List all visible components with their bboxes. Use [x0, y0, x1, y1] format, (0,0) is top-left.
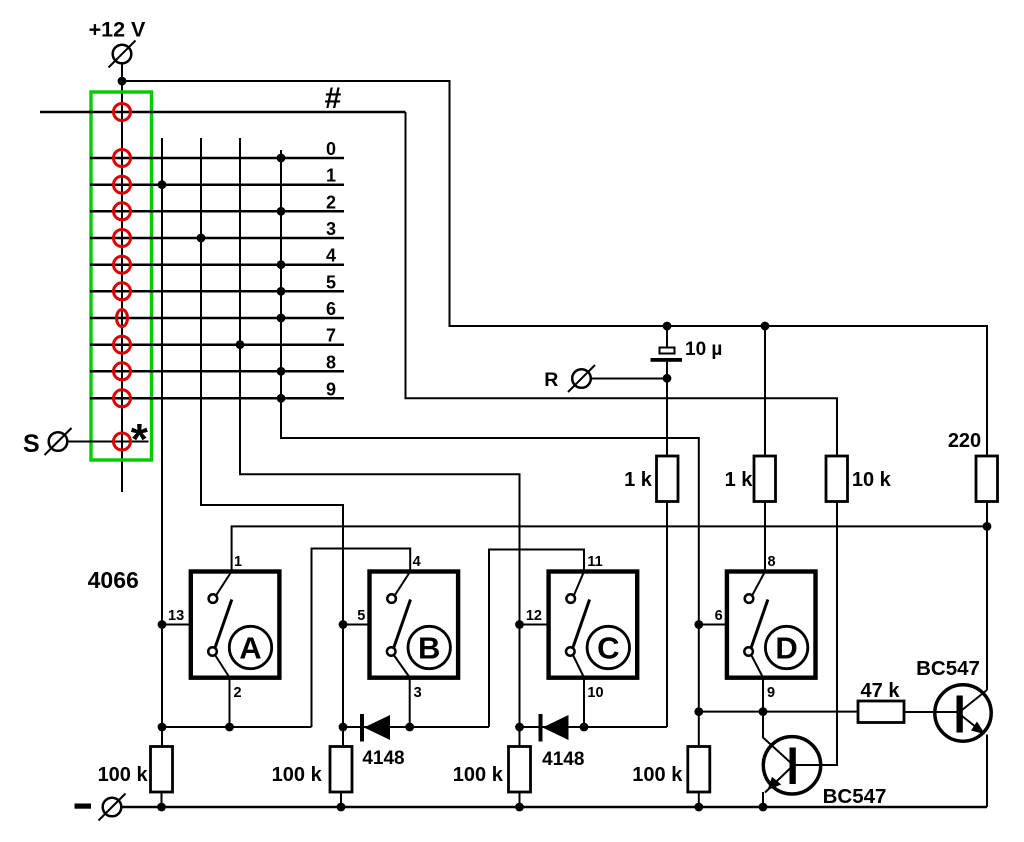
- wire signal bus to switch A pin 1: [232, 526, 987, 571]
- wire switch B pin 3 lead: [409, 678, 411, 727]
- resistor 47 k: [858, 701, 904, 723]
- switch B input diagonal: [395, 572, 410, 596]
- wire column from row 3 (switch B control): [201, 138, 343, 746]
- switch C output diagonal: [573, 656, 584, 678]
- svg-text:9: 9: [326, 379, 336, 399]
- switch D lever: [751, 600, 768, 648]
- junction row5-colD: [277, 287, 286, 296]
- svg-text:1: 1: [234, 554, 242, 570]
- wire keypad row 0: [90, 157, 344, 160]
- switch B lever: [394, 600, 411, 648]
- junction row0-colD: [277, 154, 286, 163]
- wire R node to 1k resistor: [666, 378, 668, 456]
- wire column for switch D control (multi-row net): [281, 150, 699, 746]
- switch B top contact: [387, 594, 396, 603]
- wire 100k second bottom lead: [340, 792, 342, 807]
- svg-text:BC547: BC547: [916, 657, 980, 680]
- svg-text:+12 V: +12 V: [89, 18, 146, 42]
- svg-text:3: 3: [414, 685, 422, 701]
- switch B control pin wire: [343, 624, 369, 626]
- keypad key contact 0: [114, 104, 131, 121]
- wire lower BC547 emitter to ground: [762, 792, 764, 807]
- svg-text:10 k: 10 k: [852, 469, 892, 491]
- wire capacitor top lead: [666, 326, 668, 348]
- junction 220 output node: [983, 522, 992, 531]
- keypad key contact 4: [114, 230, 131, 247]
- wire 47k to upper BC547 base: [904, 711, 957, 713]
- wire switch D output row to 47k: [699, 711, 858, 713]
- switch D box (4066): [727, 572, 816, 678]
- transistor Q1 BC547 (upper): [935, 685, 991, 741]
- svg-text:6: 6: [326, 299, 336, 319]
- svg-text:4: 4: [413, 554, 421, 570]
- junction 100k third ground: [515, 803, 524, 812]
- keypad key contact 7: [117, 310, 128, 327]
- junction +12 rail to second 1k: [761, 322, 770, 331]
- svg-text:100 k: 100 k: [98, 764, 149, 786]
- switch C bottom contact: [566, 647, 575, 656]
- junction C pin10 node: [580, 723, 589, 732]
- switch C letter circle: [587, 626, 629, 668]
- junction row7-colC: [236, 340, 245, 349]
- svg-text:8: 8: [767, 554, 775, 570]
- wire S row: [67, 441, 149, 443]
- svg-text:1 k: 1 k: [725, 469, 754, 491]
- switch B box (4066): [370, 572, 459, 678]
- keypad key contact 11: [114, 433, 131, 450]
- switch B letter circle: [408, 626, 450, 668]
- svg-text:1: 1: [326, 166, 336, 186]
- switch D output diagonal: [752, 656, 764, 678]
- svg-text:3: 3: [326, 219, 336, 239]
- keypad key contact 10: [114, 390, 131, 407]
- junction B pin3 node: [405, 723, 414, 732]
- transistor Q2 BC547 (lower): [763, 737, 821, 794]
- junction row9-colD: [277, 394, 286, 403]
- resistor 1 k (second): [754, 456, 776, 502]
- wire lower BC547 collector lead: [762, 712, 764, 738]
- wire ground rail: [122, 806, 988, 809]
- resistor 100 k (third): [509, 747, 531, 793]
- switch A input diagonal: [216, 572, 231, 596]
- svg-text:4148: 4148: [542, 749, 584, 770]
- wire second 1k to switch D pin 8: [764, 502, 766, 572]
- switch D bottom contact: [744, 647, 753, 656]
- resistor 100 k (first): [151, 747, 173, 793]
- keypad key contact 9: [114, 363, 131, 380]
- junction row4-colD: [277, 260, 286, 269]
- svg-text:9: 9: [767, 685, 775, 701]
- wire keypad row 9: [90, 397, 344, 400]
- svg-text:0: 0: [326, 139, 336, 159]
- switch D letter circle: [765, 626, 807, 668]
- wire keypad row 6: [90, 317, 344, 320]
- switch A top contact: [209, 594, 218, 603]
- wire switch A output row: [162, 726, 312, 728]
- diode D2 4148: [541, 714, 569, 742]
- svg-text:4066: 4066: [88, 567, 139, 593]
- wire upper BC547 emitter to ground: [986, 735, 988, 808]
- junction row6-colD: [277, 314, 286, 323]
- resistor 1 k (first): [657, 456, 679, 502]
- wire 10k bottom lead to transistor base: [795, 502, 837, 766]
- svg-text:S: S: [23, 430, 40, 458]
- keypad key contact 8: [114, 336, 131, 353]
- wire keypad row 4: [90, 263, 344, 266]
- svg-text:2: 2: [233, 685, 241, 701]
- svg-text:BC547: BC547: [823, 785, 887, 808]
- junction C control node: [515, 723, 524, 732]
- junction row3-colB: [197, 234, 206, 243]
- wire collector lead upper BC547: [986, 526, 988, 690]
- switch C lever: [573, 600, 590, 648]
- switch B bottom contact: [387, 647, 396, 656]
- wire # net route to 10 k: [406, 112, 838, 456]
- wire keypad row 3: [90, 237, 344, 240]
- capacitor C1 10u: [651, 348, 683, 379]
- wire switch B output row (through diode): [343, 726, 489, 728]
- junction 100k fourth ground: [694, 803, 703, 812]
- svg-text:*: *: [131, 415, 149, 464]
- label minus: [75, 804, 92, 809]
- keypad key contact 6: [114, 283, 131, 300]
- wire switch C pin 10 lead: [583, 678, 585, 727]
- switch A lever: [215, 600, 232, 648]
- junction A control-output: [158, 723, 167, 732]
- svg-text:47 k: 47 k: [861, 680, 901, 702]
- svg-text:#: #: [325, 82, 342, 115]
- junction switch D control: [694, 620, 703, 629]
- wire keypad row 2: [90, 210, 344, 213]
- svg-text:10: 10: [587, 685, 603, 701]
- svg-text:11: 11: [587, 554, 602, 570]
- junction +12V branch: [118, 77, 127, 86]
- keypad outline (green): [91, 92, 152, 460]
- svg-text:12: 12: [526, 608, 542, 624]
- junction switch B control: [339, 620, 348, 629]
- resistor 100 k (fourth): [688, 747, 710, 793]
- resistor 220: [976, 456, 998, 502]
- junction switch A control: [158, 620, 167, 629]
- wire 100k fourth bottom lead: [698, 792, 700, 807]
- keypad key contact 5: [114, 256, 131, 273]
- junction row1-colA: [158, 180, 167, 189]
- svg-text:13: 13: [168, 608, 184, 624]
- svg-text:1 k: 1 k: [624, 469, 653, 491]
- switch C input diagonal: [574, 572, 584, 596]
- keypad key contact 2: [114, 176, 131, 193]
- wire second 1k top lead: [764, 326, 766, 456]
- switch B output diagonal: [394, 656, 410, 678]
- svg-text:D: D: [775, 631, 797, 666]
- switch A bottom contact: [208, 647, 217, 656]
- switch A control pin wire: [162, 624, 191, 626]
- svg-text:8: 8: [326, 352, 336, 372]
- keypad key contact 1: [114, 150, 131, 167]
- junction D pin9 node: [759, 707, 768, 716]
- svg-text:R: R: [544, 369, 558, 391]
- wire keypad row 1: [90, 183, 344, 186]
- keypad key contact 3: [114, 203, 131, 220]
- junction 100k second ground: [337, 803, 346, 812]
- wire +12V rail to 220 resistor: [122, 81, 987, 456]
- wire R terminal to cap node: [591, 378, 667, 380]
- switch D top contact: [745, 594, 754, 603]
- junction 100k first ground: [157, 803, 166, 812]
- junction A pin2 node: [225, 723, 234, 732]
- connector ground terminal: [99, 794, 126, 821]
- svg-text:B: B: [418, 631, 440, 666]
- wire keypad row 7: [90, 343, 344, 346]
- svg-text:100 k: 100 k: [453, 764, 504, 786]
- resistor 10 k: [826, 456, 848, 502]
- wire keypad row 5: [90, 290, 344, 293]
- svg-text:A: A: [239, 631, 261, 666]
- wire keypad common column (+12V vertical): [121, 64, 123, 493]
- wire 100k third bottom lead: [519, 792, 521, 807]
- switch C control pin wire: [520, 624, 549, 626]
- wire switch D pin 9 lead: [762, 678, 764, 712]
- wire column from row 7 (switch C control): [240, 138, 520, 746]
- wire # row: [40, 111, 406, 114]
- resistor 100 k (second): [330, 747, 352, 793]
- diode D1 4148: [362, 714, 390, 742]
- svg-text:6: 6: [715, 608, 723, 624]
- wire switch C output row (through diode): [520, 726, 668, 728]
- wire 1k first bottom lead: [666, 502, 668, 728]
- connector R terminal: [568, 365, 595, 392]
- wire 100k first bottom lead: [161, 792, 163, 807]
- junction R node: [663, 374, 672, 383]
- switch A box (4066): [191, 572, 280, 678]
- wire switch B pin 4 feed from A output: [312, 549, 411, 728]
- switch A output diagonal: [215, 656, 229, 678]
- svg-text:5: 5: [357, 608, 365, 624]
- wire switch A pin 2 lead: [229, 678, 231, 727]
- junction D control-output: [694, 707, 703, 716]
- svg-text:4148: 4148: [362, 748, 404, 769]
- svg-text:5: 5: [326, 272, 336, 292]
- junction lower emitter ground: [759, 803, 768, 812]
- junction row2-colD: [277, 207, 286, 216]
- svg-text:100 k: 100 k: [632, 764, 683, 786]
- wire switch C pin 11 feed from B output: [489, 550, 584, 728]
- svg-text:220: 220: [948, 430, 981, 452]
- svg-text:100 k: 100 k: [272, 764, 323, 786]
- junction B control node: [339, 723, 348, 732]
- switch C box (4066): [549, 572, 638, 678]
- junction row8-colD: [277, 367, 286, 376]
- switch A letter circle: [229, 626, 271, 668]
- wire keypad row 8: [90, 370, 344, 373]
- svg-text:7: 7: [326, 326, 336, 346]
- switch D control pin wire: [699, 624, 727, 626]
- svg-text:4: 4: [326, 246, 336, 266]
- connector +12V terminal: [109, 41, 136, 68]
- wire 220 bottom lead: [986, 502, 988, 527]
- svg-text:10 µ: 10 µ: [685, 339, 722, 360]
- svg-text:C: C: [597, 631, 619, 666]
- svg-text:2: 2: [326, 192, 336, 212]
- switch D input diagonal: [752, 572, 765, 596]
- wire column for switch A control (row 1 net): [161, 138, 163, 746]
- connector S terminal: [45, 428, 72, 455]
- junction +12 rail to capacitor: [663, 322, 672, 331]
- switch C top contact: [566, 594, 575, 603]
- junction switch C control: [515, 620, 524, 629]
